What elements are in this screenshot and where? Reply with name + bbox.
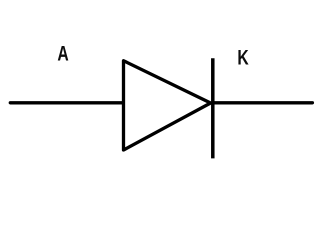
wire anode lead [10, 101, 122, 104]
wire cathode lead [213, 101, 312, 104]
svg-text:K: K [237, 45, 249, 69]
diode D1 cathode bar [211, 58, 215, 158]
svg-text:A: A [57, 41, 69, 65]
diode D1 triangle (anode) [124, 61, 211, 150]
